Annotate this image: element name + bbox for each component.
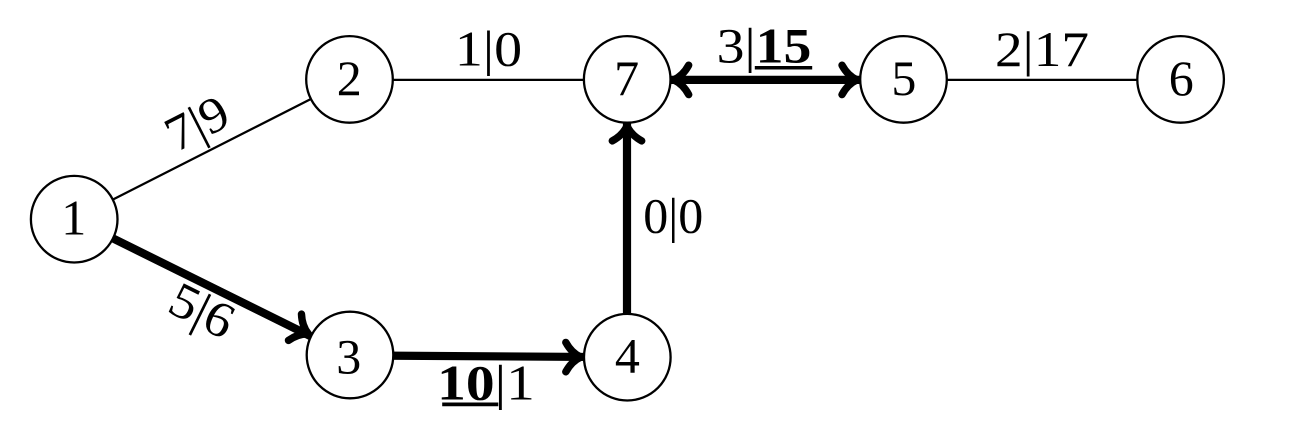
node 5 xyxy=(860,36,947,123)
svg-text:7: 7 xyxy=(614,50,639,106)
svg-text:2: 2 xyxy=(337,50,362,106)
svg-text:1|0: 1|0 xyxy=(455,22,522,77)
svg-text:7|9: 7|9 xyxy=(156,85,238,163)
wire edge 5-6 xyxy=(904,79,1181,81)
wire edge 4-7 xyxy=(623,80,631,357)
svg-text:3: 3 xyxy=(336,329,361,385)
node 2 xyxy=(306,36,393,123)
wire edge 2-7 xyxy=(350,79,628,81)
underline under 10 xyxy=(442,402,498,406)
node 4 xyxy=(584,314,671,401)
svg-text:5|6: 5|6 xyxy=(160,271,243,350)
svg-text:2|17: 2|17 xyxy=(995,23,1089,78)
arrowhead into node 5 from node 7 xyxy=(842,65,857,94)
wire edge 7-5 xyxy=(627,76,903,84)
svg-text:4: 4 xyxy=(615,328,640,384)
svg-text:3|15: 3|15 xyxy=(717,19,812,74)
wire edge 3-4 xyxy=(349,355,627,357)
svg-text:6: 6 xyxy=(1169,50,1194,106)
node 1 xyxy=(31,176,118,263)
underline under 15 xyxy=(755,66,812,70)
arrowhead into node 3 xyxy=(288,314,314,347)
node 3 xyxy=(307,312,394,399)
svg-text:5: 5 xyxy=(891,50,916,106)
svg-text:0|0: 0|0 xyxy=(643,187,703,243)
arrowhead into node 4 xyxy=(566,342,581,371)
node 7 xyxy=(584,36,671,123)
svg-text:10|1: 10|1 xyxy=(437,355,535,411)
wire edge 1-3 xyxy=(74,219,349,355)
arrowhead into node 7 from node 5 xyxy=(674,65,689,94)
wire edge 1-2 xyxy=(74,79,349,219)
arrowhead into node 7 from node 4 xyxy=(612,126,641,141)
svg-text:1: 1 xyxy=(61,190,86,246)
node 6 xyxy=(1137,36,1224,123)
